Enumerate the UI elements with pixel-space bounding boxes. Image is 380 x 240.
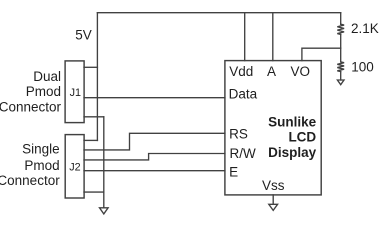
- wire J2 ground stub: [84, 191, 104, 193]
- wire J2 pin1 5V stub: [84, 139, 97, 141]
- wire Vss pin vertical: [272, 195, 274, 204]
- svg-text:Pmod: Pmod: [26, 84, 61, 99]
- svg-text:E: E: [229, 164, 238, 179]
- wire RS J2 to LCD: [84, 133, 225, 150]
- svg-text:Connector: Connector: [0, 99, 61, 114]
- svg-text:2.1K: 2.1K: [351, 21, 379, 36]
- LCD display U1 box: [225, 61, 321, 195]
- svg-text:R/W: R/W: [230, 146, 257, 161]
- wire resistor column top lead: [340, 13, 342, 25]
- svg-text:Pmod: Pmod: [24, 158, 59, 173]
- wire Vdd pin vertical: [244, 13, 246, 61]
- wire J1 ground stub: [84, 116, 104, 118]
- wire Data J1 to LCD: [84, 97, 225, 99]
- ground symbol left: [100, 208, 109, 214]
- wire J1 pin1 5V stub: [84, 66, 97, 68]
- wire 5V vertical rail: [96, 13, 98, 141]
- svg-text:Dual: Dual: [33, 69, 61, 84]
- connector J2 box: [65, 135, 84, 198]
- svg-text:Single: Single: [22, 142, 60, 157]
- ground symbol right: [337, 80, 344, 85]
- wire A pin vertical: [272, 13, 274, 61]
- svg-text:Sunlike: Sunlike: [268, 114, 317, 129]
- svg-text:Display: Display: [268, 145, 317, 160]
- wire E J2 to LCD: [84, 170, 225, 172]
- svg-text:J2: J2: [69, 161, 80, 173]
- resistor R2 100: [337, 62, 344, 72]
- svg-text:Data: Data: [229, 86, 258, 101]
- svg-text:VO: VO: [291, 64, 311, 79]
- resistor R1 2.1K: [337, 24, 344, 34]
- svg-text:Connector: Connector: [0, 173, 60, 188]
- svg-text:Vss: Vss: [262, 178, 285, 193]
- wire ground vertical line: [103, 117, 105, 208]
- wire VO pin to resistor junction: [302, 48, 341, 60]
- connector J1 box: [65, 61, 84, 123]
- svg-text:Vdd: Vdd: [229, 64, 253, 79]
- svg-text:J1: J1: [70, 87, 81, 99]
- wire between resistors: [340, 34, 342, 62]
- svg-text:RS: RS: [229, 127, 248, 142]
- svg-text:LCD: LCD: [288, 130, 316, 145]
- ground symbol center: [269, 204, 278, 210]
- svg-text:A: A: [267, 64, 276, 79]
- wire 5V top rail horizontal: [97, 12, 340, 14]
- wire resistor bottom lead: [340, 72, 342, 80]
- svg-text:5V: 5V: [75, 27, 92, 42]
- svg-text:100: 100: [351, 59, 374, 74]
- wire R/W J2 to LCD: [84, 154, 225, 160]
